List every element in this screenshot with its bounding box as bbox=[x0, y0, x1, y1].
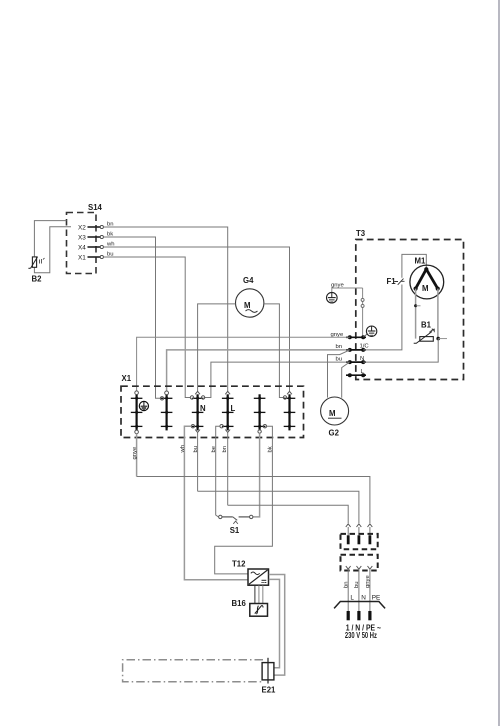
terminal X1 col6 bbox=[284, 394, 296, 430]
svg-text:M: M bbox=[244, 301, 251, 310]
svg-text:230 V 50 Hz: 230 V 50 Hz bbox=[345, 631, 377, 640]
terminal X1 col4 bbox=[222, 394, 234, 430]
wires to mains plug bbox=[347, 569, 349, 611]
node B1 right bbox=[436, 337, 440, 341]
svg-text:L: L bbox=[350, 595, 354, 602]
page edge line bbox=[498, 0, 500, 726]
motor G4 bbox=[236, 276, 264, 317]
connector circles on gnye vertical inside T3 bbox=[361, 288, 364, 337]
svg-text:S14: S14 bbox=[88, 203, 103, 212]
node N terminal row T3 bbox=[336, 356, 367, 364]
X1 dashed box bbox=[121, 386, 304, 437]
wire bn to plug L bbox=[228, 505, 349, 523]
terminal X1 col5 bbox=[254, 394, 266, 430]
wires T12 to B16 bbox=[254, 586, 256, 604]
wire G4 left to X1 col3 bbox=[198, 304, 236, 391]
motor M1 bbox=[410, 257, 444, 299]
mains plug face bbox=[334, 602, 385, 609]
svg-text:gnye: gnye bbox=[365, 575, 371, 588]
wire G4 right to X1 col6 left socket bbox=[264, 304, 284, 398]
pin N bbox=[357, 535, 360, 544]
wire 1/C row to X1 col2 bbox=[167, 350, 345, 391]
svg-text:B16: B16 bbox=[232, 599, 247, 608]
svg-text:G2: G2 bbox=[329, 429, 340, 438]
svg-text:X4: X4 bbox=[78, 245, 86, 252]
node 1/C terminal row T3 bbox=[336, 344, 370, 352]
wire M1 right winding to B1 right bbox=[437, 289, 439, 339]
svg-text:B2: B2 bbox=[32, 275, 43, 284]
switch S1 bbox=[219, 515, 253, 535]
svg-text:M: M bbox=[329, 409, 336, 418]
plug pin L bbox=[347, 611, 350, 620]
wire G2 left to 1/C row bbox=[328, 350, 350, 397]
wire wh S14.X4 to X1 col6 bbox=[104, 247, 290, 391]
svg-text:bu: bu bbox=[193, 446, 199, 453]
node gnye terminal row T3 bbox=[331, 332, 367, 340]
wire bu to plug N bbox=[198, 491, 359, 523]
fuse F1 bbox=[387, 277, 405, 286]
T3 dashed box bbox=[356, 240, 464, 380]
wire col5 right bk bbox=[215, 426, 273, 574]
svg-text:bu: bu bbox=[336, 356, 343, 362]
svg-text:PE: PE bbox=[372, 595, 381, 602]
svg-text:M1: M1 bbox=[415, 257, 426, 266]
wire N row to X1 col3 right socket bbox=[204, 362, 347, 397]
svg-text:X3: X3 bbox=[78, 235, 86, 242]
wire col3 bu down bbox=[197, 433, 199, 492]
svg-text:T3: T3 bbox=[356, 229, 366, 238]
wire T12 out2 to E21 bbox=[269, 579, 280, 667]
motor G2 bbox=[321, 397, 349, 438]
svg-text:bu: bu bbox=[354, 581, 360, 588]
svg-text:N: N bbox=[200, 404, 206, 413]
connector box socket half bbox=[341, 555, 378, 571]
wire col4 left bottom be to S1 bbox=[216, 426, 220, 517]
wire 1/C to F1 to M1 top bbox=[363, 285, 402, 350]
kink gnye bbox=[346, 336, 350, 338]
ground (chassis) outside T3 bbox=[327, 288, 363, 303]
S14 dashed box bbox=[67, 213, 97, 274]
svg-text:M: M bbox=[422, 284, 429, 293]
svg-text:bn: bn bbox=[343, 581, 349, 588]
wire col1 gnye down bbox=[136, 434, 138, 477]
svg-text:N: N bbox=[361, 595, 366, 602]
power supply T12 bbox=[232, 560, 269, 586]
plug pin N bbox=[357, 611, 360, 620]
B2 wire top bbox=[34, 221, 66, 257]
svg-text:wh: wh bbox=[180, 445, 186, 454]
node L terminal row T3 bbox=[346, 369, 366, 377]
svg-text:be: be bbox=[211, 445, 217, 452]
wire M1 left winding to B1 bbox=[415, 289, 417, 339]
kink bn bbox=[345, 349, 350, 351]
pin PE bbox=[368, 535, 371, 544]
svg-text:E21: E21 bbox=[262, 686, 277, 695]
wire col4 bn down bbox=[227, 433, 229, 506]
svg-text:bk: bk bbox=[268, 446, 274, 452]
wires chevron to pins bbox=[347, 527, 349, 535]
sensor B16 bbox=[232, 599, 268, 616]
B2 wire bottom bbox=[34, 227, 71, 273]
terminal X1 col1 bbox=[131, 394, 143, 430]
wire T12 out1 to E21 bbox=[269, 575, 285, 676]
terminal X1 col2 bbox=[161, 394, 173, 430]
svg-text:X1: X1 bbox=[122, 374, 132, 383]
junction node bbox=[414, 304, 417, 307]
wire gnye row to X1 col1 bbox=[137, 337, 347, 391]
terminal X1 col3 bbox=[192, 394, 204, 430]
wire bu S14.X1 to X1 col3 left socket bbox=[104, 257, 191, 398]
svg-text:X1: X1 bbox=[78, 255, 86, 262]
svg-text:T12: T12 bbox=[232, 560, 246, 569]
wire gnye to plug PE bbox=[137, 477, 370, 524]
S14 pin X1 bbox=[78, 255, 103, 262]
svg-text:gnye: gnye bbox=[132, 446, 138, 459]
wire B1 right down to N row bbox=[363, 339, 438, 363]
wire G2 right to N row bbox=[342, 363, 349, 398]
ground symbol inside T3 bbox=[363, 326, 377, 337]
stub right of B1 bbox=[438, 338, 447, 340]
svg-text:G4: G4 bbox=[243, 276, 254, 285]
sensor B2 bbox=[28, 257, 44, 269]
svg-text:bn: bn bbox=[222, 446, 228, 453]
S14 pin X4 bbox=[78, 245, 103, 252]
thermostat B1 bbox=[414, 321, 435, 344]
ground symbol X1 bbox=[139, 401, 148, 410]
heater E21 dash-dot box bbox=[123, 660, 263, 682]
plug pin PE bbox=[368, 611, 371, 620]
S14 pin X3 bbox=[78, 235, 103, 242]
S14 pin X2 bbox=[78, 225, 103, 232]
svg-text:S1: S1 bbox=[230, 526, 240, 535]
socket chevrons bbox=[346, 566, 351, 569]
pin L bbox=[347, 535, 350, 544]
connector chevrons above plug box bbox=[346, 524, 351, 527]
svg-text:X2: X2 bbox=[78, 225, 86, 232]
svg-text:L: L bbox=[231, 404, 236, 413]
heater E21 bbox=[262, 658, 277, 695]
wire col5 down to S1 right bbox=[253, 433, 260, 517]
wire bn S14.X2 to X1 col4 bbox=[104, 227, 228, 391]
connector box pins half bbox=[341, 534, 378, 549]
wire bk S14.X3 to X1 col2 left socket bbox=[104, 237, 161, 398]
wire col3 left bottom wh bbox=[184, 426, 248, 580]
svg-text:B1: B1 bbox=[421, 321, 432, 330]
svg-text:bn: bn bbox=[336, 344, 343, 350]
